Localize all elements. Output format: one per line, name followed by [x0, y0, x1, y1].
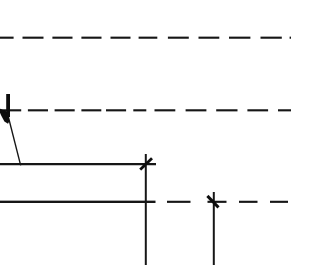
dimension tick at F/D intersection	[207, 196, 218, 208]
wall line C (upper solid horizontal)	[0, 163, 156, 165]
arrowhead blob (cropped symbol at left edge)	[0, 109, 10, 124]
wall line D (lower solid horizontal)	[0, 201, 156, 203]
centerline B (middle dashed horizontal)	[0, 109, 291, 111]
grid line E (left vertical)	[145, 154, 147, 265]
leader line (diagonal)	[8, 116, 21, 166]
dimension tick at E/C intersection	[140, 158, 152, 169]
thick bar (cropped symbol stem)	[6, 94, 10, 117]
grid line F (right vertical)	[213, 192, 215, 265]
centerline A (top dashed horizontal)	[0, 37, 291, 39]
centerline D continuation (dashed right portion)	[167, 201, 288, 203]
